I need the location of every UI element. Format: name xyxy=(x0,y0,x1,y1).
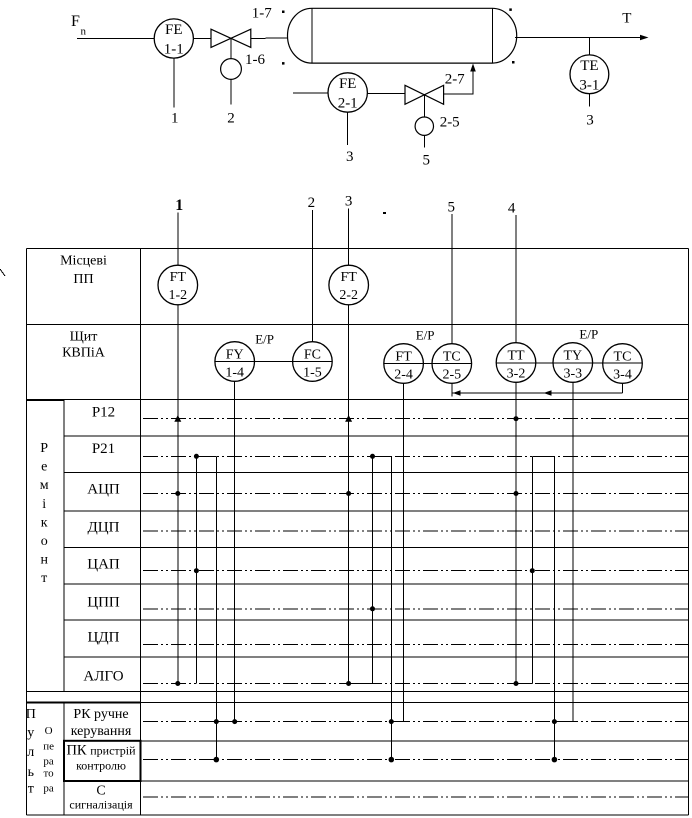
row line ДЦП xyxy=(143,530,689,532)
table outer border xyxy=(27,248,689,815)
wire line 3 (FT 2-2 loop) xyxy=(348,209,350,684)
svg-text:л: л xyxy=(27,745,34,760)
heavy border cell PK xyxy=(64,741,141,781)
vessel (horizontal drum) xyxy=(287,8,516,63)
valve 2-5 actuator xyxy=(415,117,433,135)
svg-text:Р: Р xyxy=(40,441,48,456)
row line С xyxy=(143,796,689,798)
svg-text:Е/Р: Е/Р xyxy=(579,327,598,342)
instrument bubble TE 3-1 xyxy=(570,55,609,94)
wire stub Р21 to ПК (loop 2) xyxy=(390,456,392,759)
instrument bubble FC 1-5 xyxy=(293,342,333,382)
wire line 2 (to FC 1-5) xyxy=(311,210,313,362)
wire stub Р21 to ПК (loop 1) xyxy=(215,456,217,759)
wire jog at РК (loop 3) xyxy=(554,721,572,723)
instrument bubble TC 3-4 xyxy=(603,344,643,384)
svg-text:3-2: 3-2 xyxy=(507,367,526,382)
svg-text:Е/Р: Е/Р xyxy=(416,328,435,343)
svg-text:Р12: Р12 xyxy=(92,404,115,420)
wire TY 3-3 down to РК xyxy=(572,363,574,722)
wire line 4 (TT 3-2 loop) xyxy=(515,215,517,684)
svg-text:Місцеві: Місцеві xyxy=(60,253,107,268)
svg-text:то: то xyxy=(44,768,55,780)
svg-text:n: n xyxy=(81,26,87,38)
svg-text:е: е xyxy=(41,460,47,475)
wire FY 1-4 to FC 1-5 with midlines xyxy=(215,361,332,363)
label Пульт (vertical) xyxy=(26,707,36,797)
svg-text:1-1: 1-1 xyxy=(164,42,184,58)
svg-text:FC: FC xyxy=(304,348,321,363)
valve 1-6 stem xyxy=(230,38,232,58)
svg-text:3-3: 3-3 xyxy=(563,367,582,382)
wire stub Р21 to АЛГО (loop 1) xyxy=(195,456,197,683)
svg-text:т: т xyxy=(28,782,34,797)
row line Р21 xyxy=(143,455,689,457)
svg-text:2-2: 2-2 xyxy=(339,288,358,303)
svg-text:TY: TY xyxy=(563,349,582,364)
svg-text:Е/Р: Е/Р xyxy=(255,331,274,346)
svg-text:О: О xyxy=(45,725,53,737)
svg-text:АЛГО: АЛГО xyxy=(83,668,123,684)
svg-text:TC: TC xyxy=(443,350,461,365)
svg-text:ЦДП: ЦДП xyxy=(88,629,120,645)
svg-text:ЦПП: ЦПП xyxy=(87,594,120,610)
stray mark dot xyxy=(383,212,386,214)
instrument bubble FT 2-4 xyxy=(384,344,424,384)
row line РК xyxy=(143,721,689,723)
svg-text:2-5: 2-5 xyxy=(440,115,460,131)
svg-text:о: о xyxy=(41,534,48,549)
arrow mid cascade wire xyxy=(544,390,552,395)
svg-text:1-5: 1-5 xyxy=(303,366,322,381)
svg-text:TC: TC xyxy=(614,350,632,365)
table row boundaries xyxy=(27,325,689,782)
wire into FE 2-1 xyxy=(293,92,405,95)
svg-text:ПП: ПП xyxy=(73,272,93,287)
wire Fn to FE 1-1 xyxy=(77,38,211,40)
wire jog at АЛГО (loop 3) xyxy=(516,683,532,685)
svg-text:5: 5 xyxy=(423,153,431,169)
svg-text:1: 1 xyxy=(175,197,183,214)
junction dots xyxy=(175,416,557,762)
instrument bubble TY 3-3 xyxy=(553,343,593,383)
instrument bubble FY 1-4 xyxy=(215,342,255,382)
svg-text:пе: пе xyxy=(43,741,54,753)
svg-text:С: С xyxy=(96,784,105,799)
stray mark left margin xyxy=(0,269,5,276)
wire TT 3-2 to TY 3-3 to TC 3-4 with midlines xyxy=(496,362,642,364)
svg-text:к: к xyxy=(41,515,48,530)
svg-text:1-2: 1-2 xyxy=(168,288,187,303)
svg-text:FE: FE xyxy=(165,22,183,38)
arrow at TC 2-5 end xyxy=(453,390,461,395)
svg-text:FT: FT xyxy=(170,270,187,285)
svg-text:TE: TE xyxy=(580,58,598,74)
vessel right weld line xyxy=(491,8,493,63)
label Оператора (vertical pairs) xyxy=(43,725,54,795)
svg-text:1: 1 xyxy=(171,111,179,127)
svg-text:5: 5 xyxy=(448,200,456,216)
svg-text:н: н xyxy=(40,553,48,568)
wire valve 2-5 to vessel bottom xyxy=(444,66,473,95)
wire below actuator 1-6 xyxy=(230,79,232,104)
arrow into vessel bottom xyxy=(470,64,476,72)
row line ПК xyxy=(143,759,689,761)
svg-text:КВПіА: КВПіА xyxy=(62,346,106,361)
instrument bubble FT 2-2 xyxy=(329,265,369,305)
svg-text:1-6: 1-6 xyxy=(245,52,265,68)
wire stub Р21 to АЛГО (loop 2) xyxy=(372,456,374,683)
instrument bubble FE 1-1 xyxy=(154,19,193,58)
row line ЦАП xyxy=(143,570,689,572)
svg-text:сигналізація: сигналізація xyxy=(69,798,133,812)
wire TC 3-4 stub down xyxy=(622,364,624,394)
svg-text:2: 2 xyxy=(308,195,316,211)
svg-text:F: F xyxy=(71,13,80,30)
svg-text:т: т xyxy=(41,571,47,586)
svg-text:ь: ь xyxy=(28,765,34,780)
valve 2-5 xyxy=(405,85,444,104)
svg-text:2: 2 xyxy=(227,111,235,127)
svg-text:2-7: 2-7 xyxy=(445,71,465,87)
valve 1-6 xyxy=(211,29,251,47)
arrow at T line end xyxy=(640,35,649,41)
svg-text:TT: TT xyxy=(507,349,525,364)
wire FE 1-1 tail down xyxy=(173,39,175,108)
wire FT 2-4 to TC 2-5 with midlines xyxy=(384,363,472,365)
wire vessel outlet to T xyxy=(515,37,645,39)
svg-text:керування: керування xyxy=(71,724,132,739)
svg-text:ра: ра xyxy=(43,783,54,795)
svg-text:FE: FE xyxy=(339,76,357,92)
svg-text:ДЦП: ДЦП xyxy=(88,519,120,535)
svg-text:РК ручне: РК ручне xyxy=(73,707,128,722)
row line АЛГО xyxy=(143,683,689,685)
svg-text:2-4: 2-4 xyxy=(394,368,413,383)
arrow up into Р12 on line 3 xyxy=(345,415,352,422)
svg-text:3: 3 xyxy=(345,194,353,210)
svg-text:у: у xyxy=(27,726,34,741)
svg-text:1-4: 1-4 xyxy=(225,366,244,381)
thick top border of remikont box xyxy=(27,399,65,401)
svg-text:м: м xyxy=(40,478,49,493)
wire FY 1-4 down to РК xyxy=(234,362,236,722)
svg-text:ра: ра xyxy=(43,756,54,768)
svg-text:Р21: Р21 xyxy=(92,441,115,457)
valve 2-5 stem xyxy=(423,95,425,117)
wire below actuator 2-5 xyxy=(423,135,425,147)
svg-text:3: 3 xyxy=(586,113,594,129)
instrument bubble TT 3-2 xyxy=(496,343,536,383)
svg-text:3: 3 xyxy=(346,149,354,165)
wire line 5 (to TC 2-5) xyxy=(451,214,453,397)
svg-text:FY: FY xyxy=(226,348,244,363)
wire jog at Р21 (loop 3) xyxy=(532,455,554,457)
vessel left weld line xyxy=(311,8,313,63)
row line ЦДП xyxy=(143,644,689,646)
svg-text:і: і xyxy=(42,497,46,512)
row line ЦПП xyxy=(143,608,689,610)
svg-text:контролю: контролю xyxy=(76,759,126,773)
instrument bubble FT 1-2 xyxy=(158,265,198,305)
wire TE 3-1 stub up xyxy=(588,38,590,56)
svg-text:FT: FT xyxy=(395,350,412,365)
arrow up into Р12 on line 1 xyxy=(174,415,181,422)
svg-text:4: 4 xyxy=(508,201,516,217)
svg-text:1-7: 1-7 xyxy=(252,6,272,22)
svg-text:T: T xyxy=(622,11,631,27)
wire jog at Р21 (loop 1) xyxy=(196,455,216,457)
wire line 1 (FT 1-2 loop) xyxy=(177,213,179,684)
svg-text:FT: FT xyxy=(341,270,358,285)
svg-text:2-5: 2-5 xyxy=(442,368,461,383)
label Реміконт (vertical) xyxy=(40,441,49,586)
wire FE 2-1 tail xyxy=(347,112,349,145)
svg-text:П: П xyxy=(26,707,36,722)
svg-text:АЦП: АЦП xyxy=(87,481,120,497)
instrument bubble FE 2-1 xyxy=(328,73,367,112)
wire jog at Р21 (loop 2) xyxy=(373,455,392,457)
wire valve 1-6 to vessel xyxy=(251,37,290,39)
svg-text:3-1: 3-1 xyxy=(579,78,599,94)
wire FT 2-4 down to РК xyxy=(403,364,405,722)
svg-text:Щит: Щит xyxy=(70,330,98,345)
wire TE 3-1 tail xyxy=(588,94,590,107)
row line Р12 xyxy=(143,418,689,420)
wire jog at РК (loop 1) xyxy=(216,721,234,723)
instrument bubble TC 2-5 xyxy=(432,344,472,384)
svg-text:3-4: 3-4 xyxy=(613,368,632,383)
wire stub Р21 to ПК (loop 3) xyxy=(553,456,555,759)
svg-text:ПК пристрій: ПК пристрій xyxy=(66,743,136,759)
wire jog at АЛГО (loop 2) xyxy=(349,683,373,685)
svg-text:2-1: 2-1 xyxy=(338,96,358,112)
wire stub Р21 to АЛГО (loop 3) xyxy=(531,456,533,683)
row line АЦП xyxy=(143,493,689,495)
wire jog at РК (loop 2) xyxy=(391,721,403,723)
valve 1-6 actuator xyxy=(221,59,242,80)
svg-text:ЦАП: ЦАП xyxy=(87,556,120,572)
table column dividers xyxy=(64,248,141,815)
cascade wire TC 3-4 to TC 2-5 xyxy=(452,392,622,394)
thick top border of operator panel section xyxy=(27,702,141,704)
